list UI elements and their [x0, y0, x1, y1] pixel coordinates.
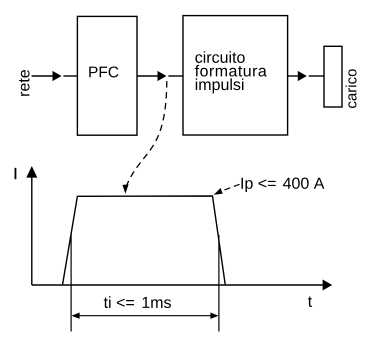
- label rete (rotated): [19, 70, 30, 96]
- dashed leader line for Ip annotation: [219, 184, 240, 192]
- wire PFC to arrow2: [137, 75, 158, 77]
- arrowhead arrow1: [53, 71, 62, 81]
- label ti <= 1ms: [104, 296, 134, 308]
- t axis (horizontal): [32, 284, 323, 286]
- label formatura: [195, 65, 267, 77]
- label circuito: [195, 51, 244, 63]
- arrowhead t axis: [323, 280, 333, 291]
- wire arrow3 to carico box: [309, 75, 324, 77]
- wire rete to arrow1: [32, 75, 53, 77]
- wire circuito box to arrow3: [288, 75, 299, 77]
- I axis (vertical): [31, 177, 33, 286]
- label carico (rotated): [346, 69, 357, 108]
- label Ip <= 400 A: [241, 178, 275, 192]
- dimension extension line left: [70, 234, 72, 332]
- wire arrow2 to circuito box: [168, 75, 183, 77]
- axis label I: [15, 168, 16, 179]
- dimension extension line right: [218, 235, 220, 332]
- block circuito formatura impulsi box: [183, 16, 288, 135]
- wire arrow1 to PFC: [63, 75, 77, 77]
- dashed leader curve from arrow2 junction to pulse top: [126, 78, 167, 187]
- arrowhead I axis: [26, 166, 37, 178]
- arrowhead Ip leader: [214, 188, 223, 195]
- current pulse trapezoid: [63, 196, 226, 284]
- axis label t: [308, 296, 312, 306]
- label PFC: [89, 66, 118, 77]
- label impulsi: [196, 78, 244, 93]
- block PFC box: [77, 16, 137, 135]
- arrowhead dimension right: [210, 313, 218, 319]
- arrowhead arrow3: [298, 71, 307, 81]
- arrowhead of dashed leader curve: [122, 184, 128, 193]
- dimension line ti: [79, 315, 211, 317]
- block carico box: [324, 46, 342, 107]
- arrowhead arrow2: [158, 71, 167, 81]
- arrowhead dimension left: [71, 313, 79, 319]
